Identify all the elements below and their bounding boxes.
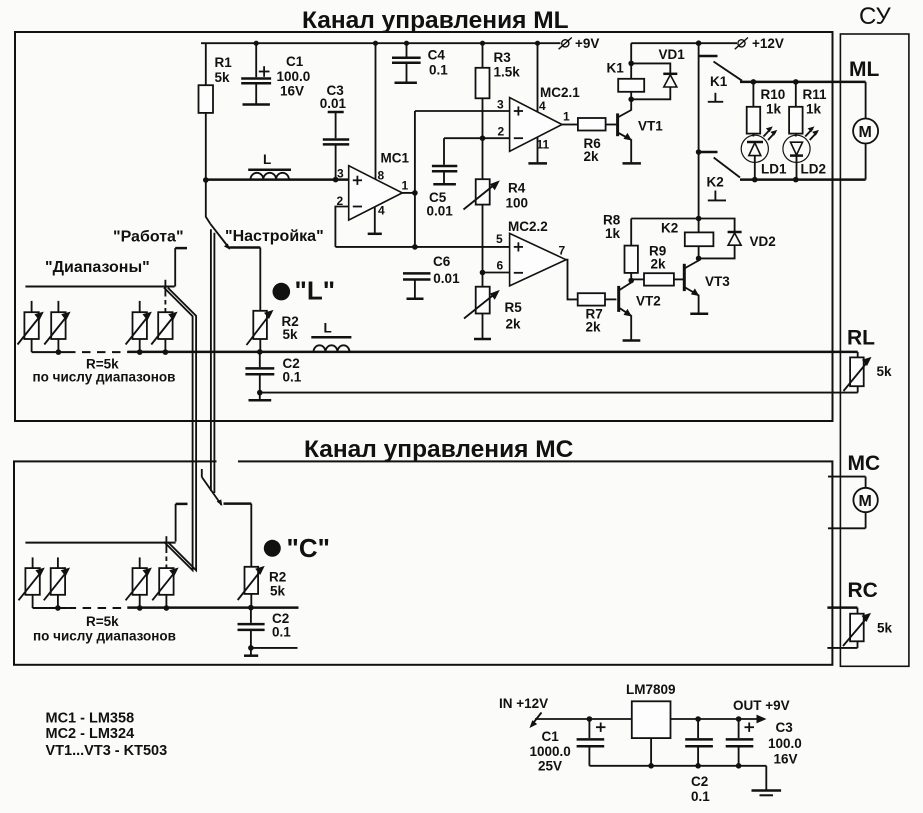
svg-text:2k: 2k bbox=[506, 317, 522, 332]
capacitor C2 MC bbox=[250, 608, 252, 623]
svg-text:C2: C2 bbox=[691, 774, 708, 789]
connector +12V bbox=[738, 40, 745, 47]
svg-text:M: M bbox=[859, 493, 872, 510]
MC band bus solid+dashed bbox=[33, 607, 68, 609]
svg-text:LM7809: LM7809 bbox=[626, 682, 676, 697]
relay coil K1 bbox=[630, 43, 632, 79]
node L dot bbox=[273, 283, 291, 301]
MC switch pole stub bbox=[201, 469, 203, 477]
diode VD2 bbox=[699, 219, 735, 232]
contact Настройка wire to R2 bbox=[229, 246, 260, 249]
resistor R2 (variable) bbox=[253, 311, 267, 339]
svg-text:Канал управления ML: Канал управления ML bbox=[302, 7, 569, 34]
LED bottom rail bbox=[740, 178, 866, 181]
switch arm (Настройка position) bbox=[210, 224, 229, 249]
svg-text:0.01: 0.01 bbox=[433, 271, 460, 286]
svg-text:C1: C1 bbox=[286, 54, 304, 69]
svg-text:R=5k: R=5k bbox=[86, 614, 119, 629]
svg-text:1k: 1k bbox=[766, 102, 782, 117]
resistor R11 bbox=[795, 82, 797, 107]
svg-text:16V: 16V bbox=[774, 752, 798, 767]
inductor L (RL line) bbox=[311, 336, 351, 339]
resistor R5 (variable) bbox=[482, 273, 484, 287]
svg-text:R5: R5 bbox=[505, 300, 523, 315]
LED LD2 bbox=[783, 135, 810, 162]
resistor R6 bbox=[562, 124, 578, 126]
svg-text:5k: 5k bbox=[270, 584, 286, 599]
svg-text:K2: K2 bbox=[707, 174, 724, 189]
resistor R3 bbox=[480, 41, 485, 46]
svg-text:R3: R3 bbox=[494, 50, 512, 65]
resistor R1 bbox=[205, 43, 207, 85]
regulator ground lead bbox=[650, 738, 652, 766]
svg-text:16V: 16V bbox=[280, 84, 304, 99]
contact K2 bbox=[698, 56, 700, 152]
MC Диапазоны bus bbox=[25, 542, 175, 544]
ML channel box frame bbox=[15, 32, 833, 421]
svg-text:R11: R11 bbox=[803, 87, 828, 102]
node rail-R1 bbox=[254, 41, 259, 46]
svg-text:MC: MC bbox=[848, 452, 881, 475]
contact Работа bbox=[175, 247, 187, 250]
svg-text:2: 2 bbox=[498, 125, 505, 139]
svg-text:VT1: VT1 bbox=[638, 119, 663, 134]
motor M1 bbox=[865, 82, 867, 119]
svg-text:LD1: LD1 bbox=[761, 162, 787, 177]
wire to MC2.1 pin3 bbox=[415, 110, 510, 112]
transistor VT3 bbox=[683, 264, 686, 291]
resistor R8 bbox=[630, 219, 632, 246]
svg-text:5k: 5k bbox=[877, 621, 893, 636]
svg-text:C6: C6 bbox=[433, 254, 451, 269]
svg-text:3: 3 bbox=[337, 167, 344, 181]
svg-text:1.5k: 1.5k bbox=[494, 65, 521, 80]
svg-text:5k: 5k bbox=[215, 70, 231, 85]
MC band resistor Rb2 bbox=[57, 557, 59, 568]
transistor VT2 bbox=[617, 286, 620, 312]
svg-text:5k: 5k bbox=[283, 327, 299, 342]
MC switch arm bbox=[202, 477, 222, 505]
svg-text:3: 3 bbox=[497, 98, 504, 112]
MC2.1 pin11 ground bbox=[537, 138, 539, 163]
svg-text:RC: RC bbox=[848, 579, 878, 602]
gang linkage B (Настройка) bbox=[210, 229, 212, 491]
C2 bottom rail to panel bbox=[260, 392, 858, 394]
+12V rail bbox=[631, 42, 737, 44]
resistor RL 5k (variable) bbox=[857, 352, 859, 358]
svg-text:VT2: VT2 bbox=[636, 294, 661, 309]
svg-text:4: 4 bbox=[378, 204, 385, 218]
op-amp MC1 bbox=[349, 166, 403, 220]
svg-text:R4: R4 bbox=[508, 181, 526, 196]
MC1 pin4 ground bbox=[374, 207, 376, 233]
PSU bottom rail bbox=[589, 765, 766, 767]
svg-text:0.1: 0.1 bbox=[283, 370, 302, 385]
output rail bbox=[671, 718, 758, 720]
CY panel box frame bbox=[840, 34, 909, 666]
svg-text:MC1: MC1 bbox=[381, 151, 410, 166]
svg-text:по числу диапазонов: по числу диапазонов bbox=[33, 370, 176, 385]
band bus solid+dashed bbox=[32, 351, 67, 353]
LED top rail bbox=[740, 81, 866, 84]
capacitor C2 bbox=[259, 352, 261, 367]
svg-text:7: 7 bbox=[559, 244, 566, 258]
svg-text:0.1: 0.1 bbox=[691, 789, 710, 804]
capacitor C6 bbox=[403, 272, 431, 275]
svg-text:VD2: VD2 bbox=[750, 234, 776, 249]
capacitor C3 PSU bbox=[738, 719, 740, 738]
MC2.1 pin4 supply line bbox=[535, 41, 540, 46]
MC C2 bottom rail to panel bbox=[251, 647, 298, 649]
svg-text:0.1: 0.1 bbox=[272, 625, 291, 640]
svg-text:OUT +9V: OUT +9V bbox=[733, 698, 790, 713]
gang linkage A (Диапазоны) bbox=[164, 288, 193, 571]
diode VD1 bbox=[631, 63, 670, 73]
main RL rail bbox=[127, 351, 857, 354]
MC band resistor Rb1 bbox=[32, 557, 34, 568]
svg-text:2k: 2k bbox=[586, 320, 602, 335]
capacitor C2 PSU bbox=[697, 719, 699, 738]
svg-text:K2: K2 bbox=[661, 221, 678, 236]
svg-text:1: 1 bbox=[563, 110, 570, 124]
svg-text:L: L bbox=[263, 152, 271, 167]
svg-text:100.0: 100.0 bbox=[768, 736, 802, 751]
svg-text:4: 4 bbox=[539, 99, 546, 113]
MC contact Работа bbox=[176, 503, 188, 506]
feedback wire to MC2.2 pin5 bbox=[335, 246, 509, 248]
svg-text:11: 11 bbox=[537, 138, 550, 152]
node rail-C4 bbox=[404, 41, 409, 46]
svg-text:+12V: +12V bbox=[752, 36, 784, 51]
svg-text:IN +12V: IN +12V bbox=[499, 696, 548, 711]
MC1 pin2 feedback jog bbox=[335, 207, 348, 247]
MC main rail bbox=[127, 606, 298, 609]
MC band resistor Rb3 bbox=[139, 557, 141, 568]
svg-text:C3: C3 bbox=[776, 720, 794, 735]
svg-text:VT1...VT3 - KT503: VT1...VT3 - KT503 bbox=[46, 743, 168, 759]
inductor L bbox=[248, 169, 291, 172]
svg-text:MC1 - LM358: MC1 - LM358 bbox=[46, 711, 135, 727]
svg-text:M: M bbox=[859, 124, 872, 141]
svg-text:1: 1 bbox=[402, 179, 409, 193]
svg-text:VD1: VD1 bbox=[659, 47, 686, 62]
vertical net MC1 out to MC2.1 pin3 and C6 bbox=[414, 111, 416, 247]
resistor RC 5k (variable) bbox=[857, 608, 859, 614]
band resistor Rb3 bbox=[139, 301, 141, 312]
svg-text:1k: 1k bbox=[806, 102, 822, 117]
svg-text:1k: 1k bbox=[605, 226, 621, 241]
svg-text:Канал управления МС: Канал управления МС bbox=[304, 436, 574, 463]
svg-text:C4: C4 bbox=[428, 48, 446, 63]
Диапазоны bus bbox=[25, 286, 174, 288]
svg-text:0.01: 0.01 bbox=[427, 204, 454, 219]
svg-text:"Работа": "Работа" bbox=[113, 229, 184, 246]
resistor R2 MC (variable) bbox=[245, 567, 259, 594]
wire pin3 net (R1 node to MC1 +) bbox=[205, 178, 348, 181]
svg-text:25V: 25V bbox=[538, 759, 562, 774]
svg-text:LD2: LD2 bbox=[801, 162, 827, 177]
MC1 pin8 supply line bbox=[375, 43, 377, 179]
svg-text:R2: R2 bbox=[269, 570, 286, 585]
+9V rail bbox=[201, 42, 561, 44]
svg-text:по числу диапазонов: по числу диапазонов bbox=[33, 629, 176, 644]
wire R8 top net bbox=[631, 218, 698, 220]
svg-text:6: 6 bbox=[497, 259, 504, 273]
svg-text:5k: 5k bbox=[877, 364, 893, 379]
band resistor Rb2 bbox=[57, 301, 59, 312]
connector +9V bbox=[562, 40, 569, 47]
band resistor Rb1 bbox=[31, 301, 33, 312]
input arrow bbox=[532, 713, 542, 725]
svg-text:"Диапазоны": "Диапазоны" bbox=[45, 259, 150, 276]
svg-text:100: 100 bbox=[506, 196, 529, 211]
svg-text:ML: ML bbox=[849, 58, 879, 81]
LED LD1 bbox=[741, 135, 768, 162]
motor M2 bbox=[828, 476, 866, 478]
op-amp MC2.2 bbox=[510, 233, 566, 286]
svg-text:СУ: СУ bbox=[859, 3, 892, 30]
svg-text:"L": "L" bbox=[295, 276, 336, 306]
resistor R4 (variable) bbox=[482, 138, 484, 179]
capacitor C1 bbox=[255, 43, 257, 77]
svg-text:+9V: +9V bbox=[575, 36, 599, 51]
MC band resistor Rb4 (selected, dashed lead) bbox=[165, 536, 167, 548]
svg-text:0.01: 0.01 bbox=[320, 96, 347, 111]
wire MC2.1 pin2 net bbox=[444, 137, 510, 139]
wire MC2.2 pin6 net bbox=[483, 272, 510, 274]
resistor R7 bbox=[578, 293, 605, 305]
svg-text:1000.0: 1000.0 bbox=[530, 744, 571, 759]
MC1 output wire bbox=[402, 192, 415, 194]
contact K1 bbox=[698, 43, 700, 56]
switch pole from R1 node bbox=[206, 180, 211, 224]
svg-text:8: 8 bbox=[378, 169, 385, 183]
svg-text:C1: C1 bbox=[542, 729, 560, 744]
output wire MC2.2 pin7 bbox=[566, 260, 578, 300]
resistor R10 bbox=[752, 82, 754, 107]
node C dot bbox=[264, 540, 281, 557]
svg-text:K1: K1 bbox=[710, 74, 728, 89]
svg-text:VT3: VT3 bbox=[705, 274, 730, 289]
svg-text:K1: K1 bbox=[607, 61, 625, 76]
svg-text:2k: 2k bbox=[584, 149, 600, 164]
resistor R9 bbox=[631, 278, 644, 280]
svg-text:100.0: 100.0 bbox=[277, 69, 311, 84]
MC channel box frame bbox=[14, 461, 832, 664]
svg-text:L: L bbox=[324, 321, 332, 336]
svg-text:MC2 - LM324: MC2 - LM324 bbox=[46, 726, 135, 742]
capacitor C4 bbox=[406, 43, 408, 56]
svg-text:"Настройка": "Настройка" bbox=[225, 228, 324, 245]
PSU ground bbox=[765, 766, 767, 790]
svg-text:2k: 2k bbox=[651, 257, 667, 272]
svg-text:R10: R10 bbox=[761, 87, 786, 102]
svg-text:R1: R1 bbox=[215, 55, 233, 70]
svg-text:5: 5 bbox=[496, 232, 503, 246]
band resistor Rb4 (selected, dashed lead) bbox=[164, 280, 166, 292]
svg-text:MC2.1: MC2.1 bbox=[540, 85, 580, 100]
relay coil K2 bbox=[698, 219, 700, 233]
svg-text:RL: RL bbox=[847, 327, 875, 350]
svg-text:0.1: 0.1 bbox=[429, 63, 448, 78]
svg-text:MC2.2: MC2.2 bbox=[508, 219, 548, 234]
svg-text:"C": "C" bbox=[287, 533, 330, 563]
capacitor C1 PSU bbox=[588, 719, 590, 738]
capacitor C5 bbox=[443, 138, 445, 165]
input rail bbox=[535, 718, 632, 720]
op-amp MC2.1 bbox=[510, 98, 562, 152]
transistor VT1 bbox=[616, 113, 619, 136]
MC contact Настройка wire to R2 bbox=[224, 502, 252, 505]
break in MC box top edge bbox=[217, 459, 239, 463]
